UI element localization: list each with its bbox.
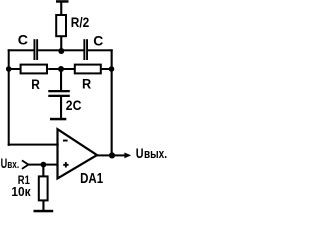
wire (middle row, left stub) — [9, 68, 21, 70]
svg-text:10к: 10к — [11, 185, 31, 199]
ground (below 2C) — [50, 118, 66, 121]
capacitor C2 (right) — [83, 39, 88, 60]
wire (right vertical rail) — [111, 49, 113, 156]
capacitor 2C — [48, 90, 70, 97]
label Uвх. — [1, 156, 20, 171]
wire (R1 top lead) — [42, 165, 44, 177]
wire (top horizontal, right segment) — [88, 49, 113, 51]
svg-text:DA1: DA1 — [80, 170, 103, 187]
node (right junction) — [109, 66, 115, 72]
op-amp DA1 — [58, 129, 98, 178]
svg-text:вых.: вых. — [144, 147, 167, 161]
svg-text:2C: 2C — [66, 97, 82, 113]
node (input junction) — [41, 162, 47, 168]
ground (top common bar) — [56, 0, 69, 3]
svg-text:U: U — [1, 156, 8, 171]
svg-text:U: U — [136, 145, 144, 161]
output arrow — [124, 153, 131, 159]
svg-text:R: R — [31, 77, 40, 92]
node (output junction) — [109, 152, 115, 158]
node (left junction) — [6, 66, 12, 72]
resistor R (left) — [21, 65, 47, 74]
wire (middle row, center segment) — [48, 68, 74, 70]
wire (left vertical rail) — [8, 49, 10, 146]
resistor R1 — [39, 176, 48, 200]
wire (middle row, right stub) — [102, 68, 113, 70]
capacitor C1 (left) — [34, 39, 39, 60]
svg-text:C: C — [18, 32, 28, 48]
wire (top horizontal, middle segment) — [38, 49, 83, 51]
wire (top horizontal, left segment) — [8, 49, 34, 51]
wire (R/2 bottom lead) — [60, 36, 62, 50]
wire (R1 bottom lead) — [42, 201, 44, 211]
svg-text:R: R — [82, 76, 91, 91]
svg-text:вх.: вх. — [7, 159, 19, 171]
wire (R/2 top lead) — [60, 3, 62, 16]
node (middle junction) — [58, 66, 64, 72]
wire (2C top lead) — [60, 69, 62, 91]
wire (output) — [96, 154, 125, 156]
ground (below R1) — [34, 210, 54, 213]
svg-text:R/2: R/2 — [71, 14, 90, 30]
wire (2C bottom lead) — [60, 97, 62, 119]
resistor R/2 — [56, 15, 66, 36]
wire (noninverting input) — [28, 164, 58, 166]
input terminal Uвх. — [22, 160, 29, 169]
wire (inverting input from left rail) — [8, 144, 59, 146]
resistor R (right) — [75, 65, 101, 74]
svg-text:C: C — [93, 33, 103, 49]
label Uвых. — [136, 145, 167, 161]
node (top junction) — [58, 48, 64, 54]
